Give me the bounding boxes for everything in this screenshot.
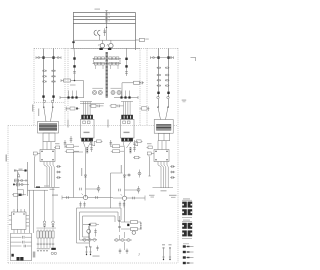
contact output D9 (170, 171, 175, 173)
transformer TR1 lead bundle (80, 102, 104, 116)
right filter box dotted (146, 48, 148, 125)
capacitor C15 (96, 246, 98, 252)
capacitor C18 pair (119, 202, 125, 208)
fuse F4 side tap (151, 56, 174, 59)
capacitor C12 (118, 216, 121, 232)
diode D2 (125, 72, 128, 74)
diode D12 (123, 175, 125, 177)
filter capacitor CF3 (11, 245, 32, 248)
bus left drop wire (73, 13, 75, 49)
contact output D8 (170, 165, 175, 167)
resistor R15 (121, 221, 141, 224)
capacitor C5 (70, 136, 73, 143)
winding taps U (69, 91, 77, 98)
label TR2 side (108, 120, 109, 128)
DC bus wire mid2 (73, 19, 136, 21)
winding rail V wire (114, 96, 138, 99)
gate resistor R2 (122, 81, 144, 84)
terminal TP4 (169, 244, 172, 260)
snubber group SG3 (110, 104, 124, 107)
diode D7 (147, 143, 153, 149)
relay K1 contact wires (44, 162, 54, 188)
resistor R12 tap (119, 186, 140, 194)
lower enclosure dotted (8, 48, 178, 263)
zener Z1 (86, 147, 88, 153)
resistor R17 (133, 156, 141, 159)
wire sense 1 (34, 186, 60, 189)
terminal TB4 (183, 262, 194, 264)
emitter rail wire (71, 47, 140, 49)
transistor Q4 (121, 194, 127, 200)
capacitor C13 (119, 249, 122, 255)
node A (106, 23, 107, 40)
wire gate loop U (83, 81, 85, 98)
diode D1 (73, 72, 76, 74)
right block rail L2 wire (168, 49, 170, 98)
capacitor C17 pair (79, 202, 85, 208)
node R-L1 junction (157, 56, 159, 58)
left transformer label (38, 109, 39, 117)
optocoupler IC1 (9, 209, 29, 233)
wire gate loop V (121, 83, 123, 98)
filter capacitor CF1 (11, 236, 32, 239)
resistor R16 (121, 228, 141, 231)
diode D11 (84, 175, 86, 177)
terminal TP1 (85, 246, 87, 255)
snubber group SG2 (89, 104, 104, 107)
snubber capacitor CA1 (37, 243, 39, 248)
snubber capacitor CA6 (52, 243, 54, 248)
wire sense right (153, 188, 174, 192)
snubber network row 1 right (108, 57, 121, 60)
filter box outline (11, 233, 32, 260)
wire right return (148, 157, 150, 177)
wire phase U drop (73, 48, 76, 80)
snubber network row 1 left (93, 57, 106, 60)
contact output D10 (170, 176, 175, 178)
net label N1 (6, 155, 7, 162)
label PE1 (169, 195, 177, 198)
snubber capacitor CA5 (49, 243, 51, 248)
snubber capacitor CA2 (40, 243, 42, 248)
diode row DL1 (82, 238, 97, 242)
resistor R11 (111, 150, 124, 153)
label +15V V (121, 165, 122, 173)
snubber network row 2 right (108, 62, 121, 65)
terminal TP2 (89, 246, 91, 255)
resistor R18 rung (14, 179, 28, 182)
winding rail U wire (60, 96, 84, 99)
transformer TR1 terminal strip top (81, 115, 93, 120)
varistor RV4 row (157, 67, 170, 69)
varistor RV5 row (157, 74, 170, 76)
gate resistor R1 (61, 79, 84, 82)
terminal TP3 (162, 244, 165, 260)
resistor R6 (147, 152, 154, 157)
resistor R8 (65, 150, 79, 153)
label IC1 (52, 195, 58, 196)
transformer TR1 terminal strip bottom (81, 138, 93, 142)
capacitor C10 (127, 172, 132, 178)
node tap V2 (124, 96, 126, 98)
relay K1 (40, 142, 55, 162)
filter capacitor CF2 (11, 241, 32, 244)
right block rail L1 wire (158, 49, 160, 98)
node V2 (125, 65, 127, 67)
transistor Q3 (82, 194, 88, 200)
node C (127, 224, 129, 226)
node U1 (73, 57, 75, 59)
fuse F1 (136, 38, 149, 41)
winding coil W4 (117, 91, 121, 95)
transformer TR1 body (80, 119, 94, 138)
resistor R13 (12, 193, 26, 212)
wire sense 2 (28, 189, 55, 190)
contact output D5 (56, 171, 61, 173)
wire loop V left (111, 173, 123, 208)
capacitor C11 (94, 229, 97, 237)
transformer T3 core (154, 120, 173, 134)
label 5V2 (149, 195, 155, 198)
label TR1 side (68, 120, 69, 128)
capacitor C4 (103, 28, 106, 36)
transformer T2 primary winding (106, 52, 108, 98)
regulator U2 (18, 190, 24, 195)
snubber resistor RA4 (46, 230, 48, 243)
choke terminals right (157, 96, 169, 98)
wire Q4 emitter (124, 200, 126, 222)
inductor L1 coil (94, 30, 100, 40)
node V1 (125, 58, 127, 60)
transistor Q1 (98, 40, 104, 50)
capacitor C8 (110, 140, 113, 147)
DC bus wire mid1 (73, 16, 136, 18)
node U2 (73, 65, 75, 67)
capacitor C9 (133, 140, 138, 152)
wire rail S2 (113, 196, 145, 201)
relay K2 (154, 141, 169, 162)
bus link capacitors C1-C3 (105, 10, 109, 23)
wire ladder riser (18, 162, 28, 196)
node tap U2 (71, 96, 73, 98)
label J3 (138, 253, 140, 257)
indicator block (51, 248, 57, 255)
diode D14 (52, 187, 55, 229)
left block rail L2 wire (53, 49, 55, 102)
winding top link wire (92, 87, 121, 89)
transformer TR2 lead bundle (121, 102, 133, 116)
left block rail L1 wire (43, 49, 45, 102)
resistor R9 tap (80, 185, 100, 193)
snubber resistor RA5 (49, 230, 51, 243)
resistor R7 (64, 145, 80, 148)
transistor Q2 (107, 40, 113, 50)
wire phase V drop (126, 48, 128, 76)
left transformer lead wires (43, 103, 53, 122)
node L1 bottom (42, 95, 44, 97)
center inverter box dotted (68, 48, 140, 125)
DC bus wire - (73, 23, 136, 25)
label +15V U (81, 168, 82, 176)
snubber resistor RA1 (37, 230, 39, 243)
fuse F3 side tap (57, 57, 59, 59)
wire loop U left (74, 152, 84, 198)
right transformer lead wires (157, 99, 168, 120)
wire chain V funnel (123, 142, 131, 197)
contact output D4 (56, 165, 61, 167)
snubber row link wires (94, 58, 121, 63)
fuse F5 side tap (170, 57, 172, 59)
node L2 junction (52, 56, 54, 58)
winding coil W3 (111, 91, 115, 95)
wire chain U funnel (83, 142, 91, 198)
winding coil W2 (98, 91, 102, 95)
relay K2 contact wires (158, 162, 168, 189)
node tap U3 (75, 96, 77, 98)
varistor RV2 row (42, 75, 55, 77)
varistor RV3 row (42, 81, 55, 83)
winding coil W1 (93, 91, 97, 95)
wire left return (34, 157, 36, 188)
bus label (95, 9, 101, 10)
node L1 junction (42, 56, 44, 58)
capacitor C6 (64, 140, 67, 148)
node gate U (70, 80, 76, 86)
capacitor C7 (90, 140, 95, 152)
transistor Q5 (87, 226, 91, 238)
sensor glyph PH1 (17, 173, 20, 178)
resistor R4 (135, 140, 143, 143)
transformer TR2 terminal strip top (121, 115, 133, 120)
transformer T1 core (38, 122, 59, 134)
connector CN2 (182, 221, 192, 238)
node L2 bottom (52, 95, 54, 97)
resistor R5 (33, 152, 40, 157)
snubber capacitor CA4 (46, 243, 48, 248)
label GND1 (93, 256, 100, 257)
varistor RV7 row (157, 85, 170, 87)
fuse F2 side tap (36, 56, 61, 59)
wire bus drop 1 (29, 190, 31, 233)
connector CN1 (182, 200, 192, 217)
left filter box dotted (34, 48, 65, 125)
node B (89, 224, 91, 247)
resistor R19 rung (13, 183, 29, 186)
arrow mark on bus drop (72, 41, 74, 43)
snubber network row 2 left (93, 62, 106, 65)
choke terminals (43, 100, 53, 102)
diode D3 (54, 143, 60, 149)
wire rail S1 (62, 196, 113, 200)
node R-L1 bottom (157, 92, 159, 94)
connector CN2 label (183, 220, 190, 221)
capacitor C16 rung (14, 169, 28, 172)
snubber array bottom marks (37, 248, 50, 251)
label J5 (182, 100, 187, 103)
terminal TB1 (183, 245, 194, 247)
snubber array labels (37, 227, 57, 230)
zener Z2 (130, 147, 132, 153)
transformer TR2 terminal strip bottom (121, 138, 133, 142)
connector CN1 label (183, 198, 190, 199)
node tap U1 (67, 96, 69, 98)
upper enclosure dotted top (34, 47, 178, 49)
terminal TB3 (183, 256, 194, 258)
node R-L2 bottom (167, 92, 169, 94)
transformer TR2 body (120, 119, 134, 138)
bus right drop wire (135, 13, 137, 51)
thermistor RT1 (138, 170, 142, 178)
wire bus drop 2 (33, 190, 35, 233)
diode bridge D16 (114, 232, 132, 250)
wire feedback loop 3 (83, 216, 116, 237)
snubber resistor RA6 (52, 230, 54, 243)
wire collector rail (73, 39, 136, 41)
snubber resistor RA2 (40, 230, 42, 243)
node tap V3 (128, 96, 130, 98)
node tap V1 (120, 96, 122, 98)
connector CN3 (17, 252, 36, 261)
resistor R14 (83, 223, 99, 226)
net label N2 (32, 105, 33, 112)
terminal TB labels (183, 242, 189, 245)
contact output D6 (56, 176, 61, 178)
wire feedback loop 2 (80, 212, 119, 240)
diode D13 (43, 190, 46, 229)
snubber row downlink wires (96, 65, 119, 69)
transistor Q6 (132, 231, 136, 235)
terminal TB2 (183, 251, 194, 253)
winding taps V (122, 91, 130, 98)
trimmer RP1 (140, 223, 141, 230)
varistor RV1 row (42, 70, 55, 72)
snubber resistor RA3 (43, 230, 45, 243)
ground lug (11, 254, 13, 257)
transformer T3 bobbin (158, 133, 169, 140)
resistor R3 (95, 140, 103, 143)
snubber capacitor CA3 (43, 243, 45, 248)
node R-L2 junction (167, 56, 169, 58)
wire feedback loop 1 (77, 208, 122, 243)
resistor R10 (111, 145, 124, 148)
label J2 bracket (191, 57, 196, 61)
snubber group SG4 (140, 107, 150, 111)
snubber group SG1 (66, 107, 80, 111)
capacitor C14 (126, 249, 129, 255)
varistor RV6 row (157, 79, 170, 81)
DC bus wire + (73, 12, 136, 14)
transformer T1 bobbin (43, 133, 55, 142)
